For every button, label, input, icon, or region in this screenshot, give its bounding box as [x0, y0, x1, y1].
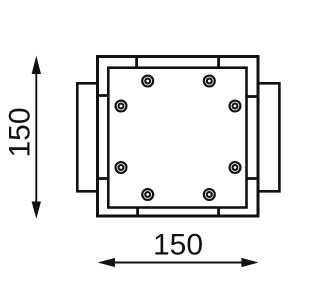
svg-text:150: 150	[153, 229, 203, 262]
svg-text:150: 150	[3, 107, 36, 157]
